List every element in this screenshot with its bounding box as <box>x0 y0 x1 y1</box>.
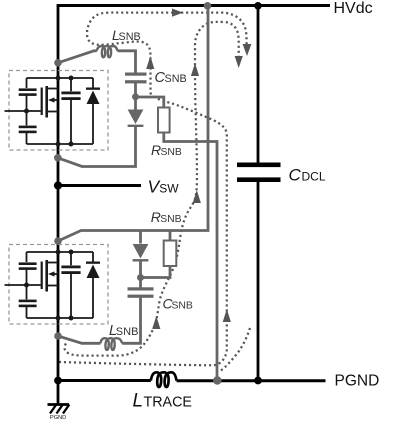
svg-text:TRACE: TRACE <box>144 395 192 411</box>
svg-text:L: L <box>133 391 144 412</box>
resistor RSNB2 bottom body <box>164 241 177 267</box>
wire CSNB top to junction <box>134 83 137 95</box>
wire CSNB2 to LSNB2 to PGND bus <box>58 298 141 344</box>
diode body D2 (up) <box>87 265 100 279</box>
wire junction2 to CSNB2 <box>139 278 142 288</box>
capacitor CSNB2 bottom plates <box>128 287 154 290</box>
svg-text:SNB: SNB <box>172 301 193 312</box>
wire RSNB2 top stub <box>169 231 172 241</box>
inductor LTRACE coil loops <box>151 372 177 387</box>
wire dotted loop path1: big snubber loop bottom-to-top <box>59 13 247 366</box>
node snubber2 PGND branch <box>54 332 62 340</box>
inductor LSNB top coil loops <box>97 46 118 57</box>
wire junction to RSNB top <box>136 97 164 108</box>
wire M2 gate lead <box>5 284 41 286</box>
wire diode D2 to junction <box>139 261 142 277</box>
arrow up on path1 riser <box>223 309 231 322</box>
capacitor CSNB top plates <box>125 73 147 76</box>
svg-text:PGND: PGND <box>50 415 66 421</box>
wire M2 drain stub <box>48 262 58 264</box>
HVdc rail <box>57 4 330 7</box>
arrow up on path2 beside CSNB bottom <box>152 316 160 329</box>
capacitor Cgs plates <box>19 126 37 129</box>
node M1 bottom-bus <box>56 142 61 147</box>
wire diode D1 stub <box>134 97 137 110</box>
transistor Q2 channel bar <box>45 260 48 292</box>
node M1 bottom-cap <box>69 142 74 147</box>
node M2 gate-cap <box>24 283 29 288</box>
transistor Q1 gate bar <box>41 88 43 116</box>
wire M1 bottom rail <box>27 143 94 145</box>
svg-text:PGND: PGND <box>335 373 380 390</box>
node PGND CDCL junction <box>254 377 262 385</box>
wire M1 gate-cap chain <box>26 78 28 144</box>
wire diode D2 stub <box>139 231 142 244</box>
svg-text:DCL: DCL <box>302 170 326 184</box>
transistor Q2 body arrow <box>48 271 55 276</box>
svg-text:C: C <box>289 166 302 185</box>
arrow up on path2 riser top <box>191 63 199 76</box>
transistor Q1 channel bar <box>45 86 48 118</box>
diode body D (up) <box>87 91 100 105</box>
svg-text:SNB: SNB <box>160 214 181 225</box>
wire RSNB bottom to PGND rail <box>164 133 217 381</box>
module M2 dashed outline <box>9 245 108 325</box>
arrow up on path2 riser middle <box>193 190 201 203</box>
node snubber1 HV branch <box>54 59 62 67</box>
wire M2 top rail <box>27 251 94 253</box>
wire dotted loop path2: module loop bottom-to-top-right <box>65 22 239 356</box>
diode D1 (top snubber, pointing down) <box>128 110 144 125</box>
PGND rail <box>57 379 326 382</box>
arrow up on path1 beside CSNB top <box>146 56 154 69</box>
capacitor Cgs2 plates <box>19 300 37 303</box>
arrow right on path1 top <box>172 9 183 17</box>
node M2 bottom-bus <box>56 316 61 321</box>
wire M2 body stub <box>52 273 58 275</box>
node snubber2 RCD junction <box>137 274 144 281</box>
wire M1 mid-cap chain <box>70 78 72 144</box>
node M1 top-bus <box>56 76 61 81</box>
svg-text:SNB: SNB <box>161 147 182 158</box>
arrow down at end of path2 <box>235 56 243 68</box>
wire Vsw node to bottom snubber and up to HVdc (vertical A) <box>58 6 208 241</box>
wire M2 bottom rail <box>27 317 94 319</box>
wire M2 source stub <box>48 285 58 287</box>
capacitor CDCL plates <box>237 163 281 183</box>
node PGND grey tap <box>213 376 221 384</box>
transistor Q2 gate bar <box>41 262 43 290</box>
wire Vsw stub <box>58 184 141 187</box>
node PGND bus junction <box>54 377 62 385</box>
resistor RSNB top body <box>158 108 170 133</box>
svg-text:SNB: SNB <box>116 326 139 338</box>
wire diode D1 bottom to Vsw node <box>58 126 136 167</box>
capacitor Cds2 plates <box>61 266 80 269</box>
module M1 dashed outline <box>9 71 108 151</box>
wire dotted hook path3 near PGND junction <box>220 328 251 372</box>
left DC bus (through both modules) <box>57 6 60 405</box>
svg-text:SW: SW <box>159 182 179 196</box>
wire HVdc bus to LSNB (top snubber) <box>58 51 136 74</box>
wire M1 body stub <box>52 99 58 101</box>
node M1 top-cap <box>69 76 74 81</box>
wire M2 mid-cap chain <box>70 252 72 318</box>
wire M2 body diode chain <box>92 252 94 318</box>
transistor Q1 body arrow <box>48 97 55 102</box>
node snubber2 Vsw branch <box>54 237 62 245</box>
node M2 top-bus <box>56 250 61 255</box>
svg-text:SNB: SNB <box>165 73 187 85</box>
node HVdc grey tap <box>204 2 212 10</box>
svg-text:HVdc: HVdc <box>334 0 373 17</box>
wire RSNB2 bottom to junction <box>141 266 171 278</box>
wire M1 body diode chain <box>92 78 94 144</box>
wire M1 drain stub <box>48 88 58 90</box>
wire M1 source stub <box>48 111 58 113</box>
CDCL branch lower wire <box>257 182 260 381</box>
capacitor Cgd2 plates <box>19 262 37 265</box>
arrow down at end of path1 <box>243 44 252 56</box>
wire M2 gate-cap chain <box>26 252 28 318</box>
node snubber1 Vsw branch <box>54 154 62 162</box>
wire M1 top rail <box>27 77 94 79</box>
ground bar <box>48 403 70 406</box>
inductor LSNB2 bottom coil loops <box>100 338 122 350</box>
capacitor Cds plates <box>61 92 80 95</box>
node M2 bottom-cap <box>69 316 74 321</box>
wire M1 gate lead <box>5 110 41 112</box>
ground hatch strokes <box>50 405 69 414</box>
svg-text:SNB: SNB <box>119 31 141 43</box>
node M1 gate-cap <box>24 109 29 114</box>
diode D2 (bottom snubber, pointing down) <box>133 244 149 259</box>
node snubber1 RCD junction <box>132 93 139 100</box>
node HVdc CDCL junction <box>254 2 262 10</box>
CDCL branch upper wire <box>257 6 260 163</box>
capacitor Cgd plates <box>19 88 37 91</box>
node M2 top-cap <box>69 250 74 255</box>
node Vsw <box>54 181 62 189</box>
